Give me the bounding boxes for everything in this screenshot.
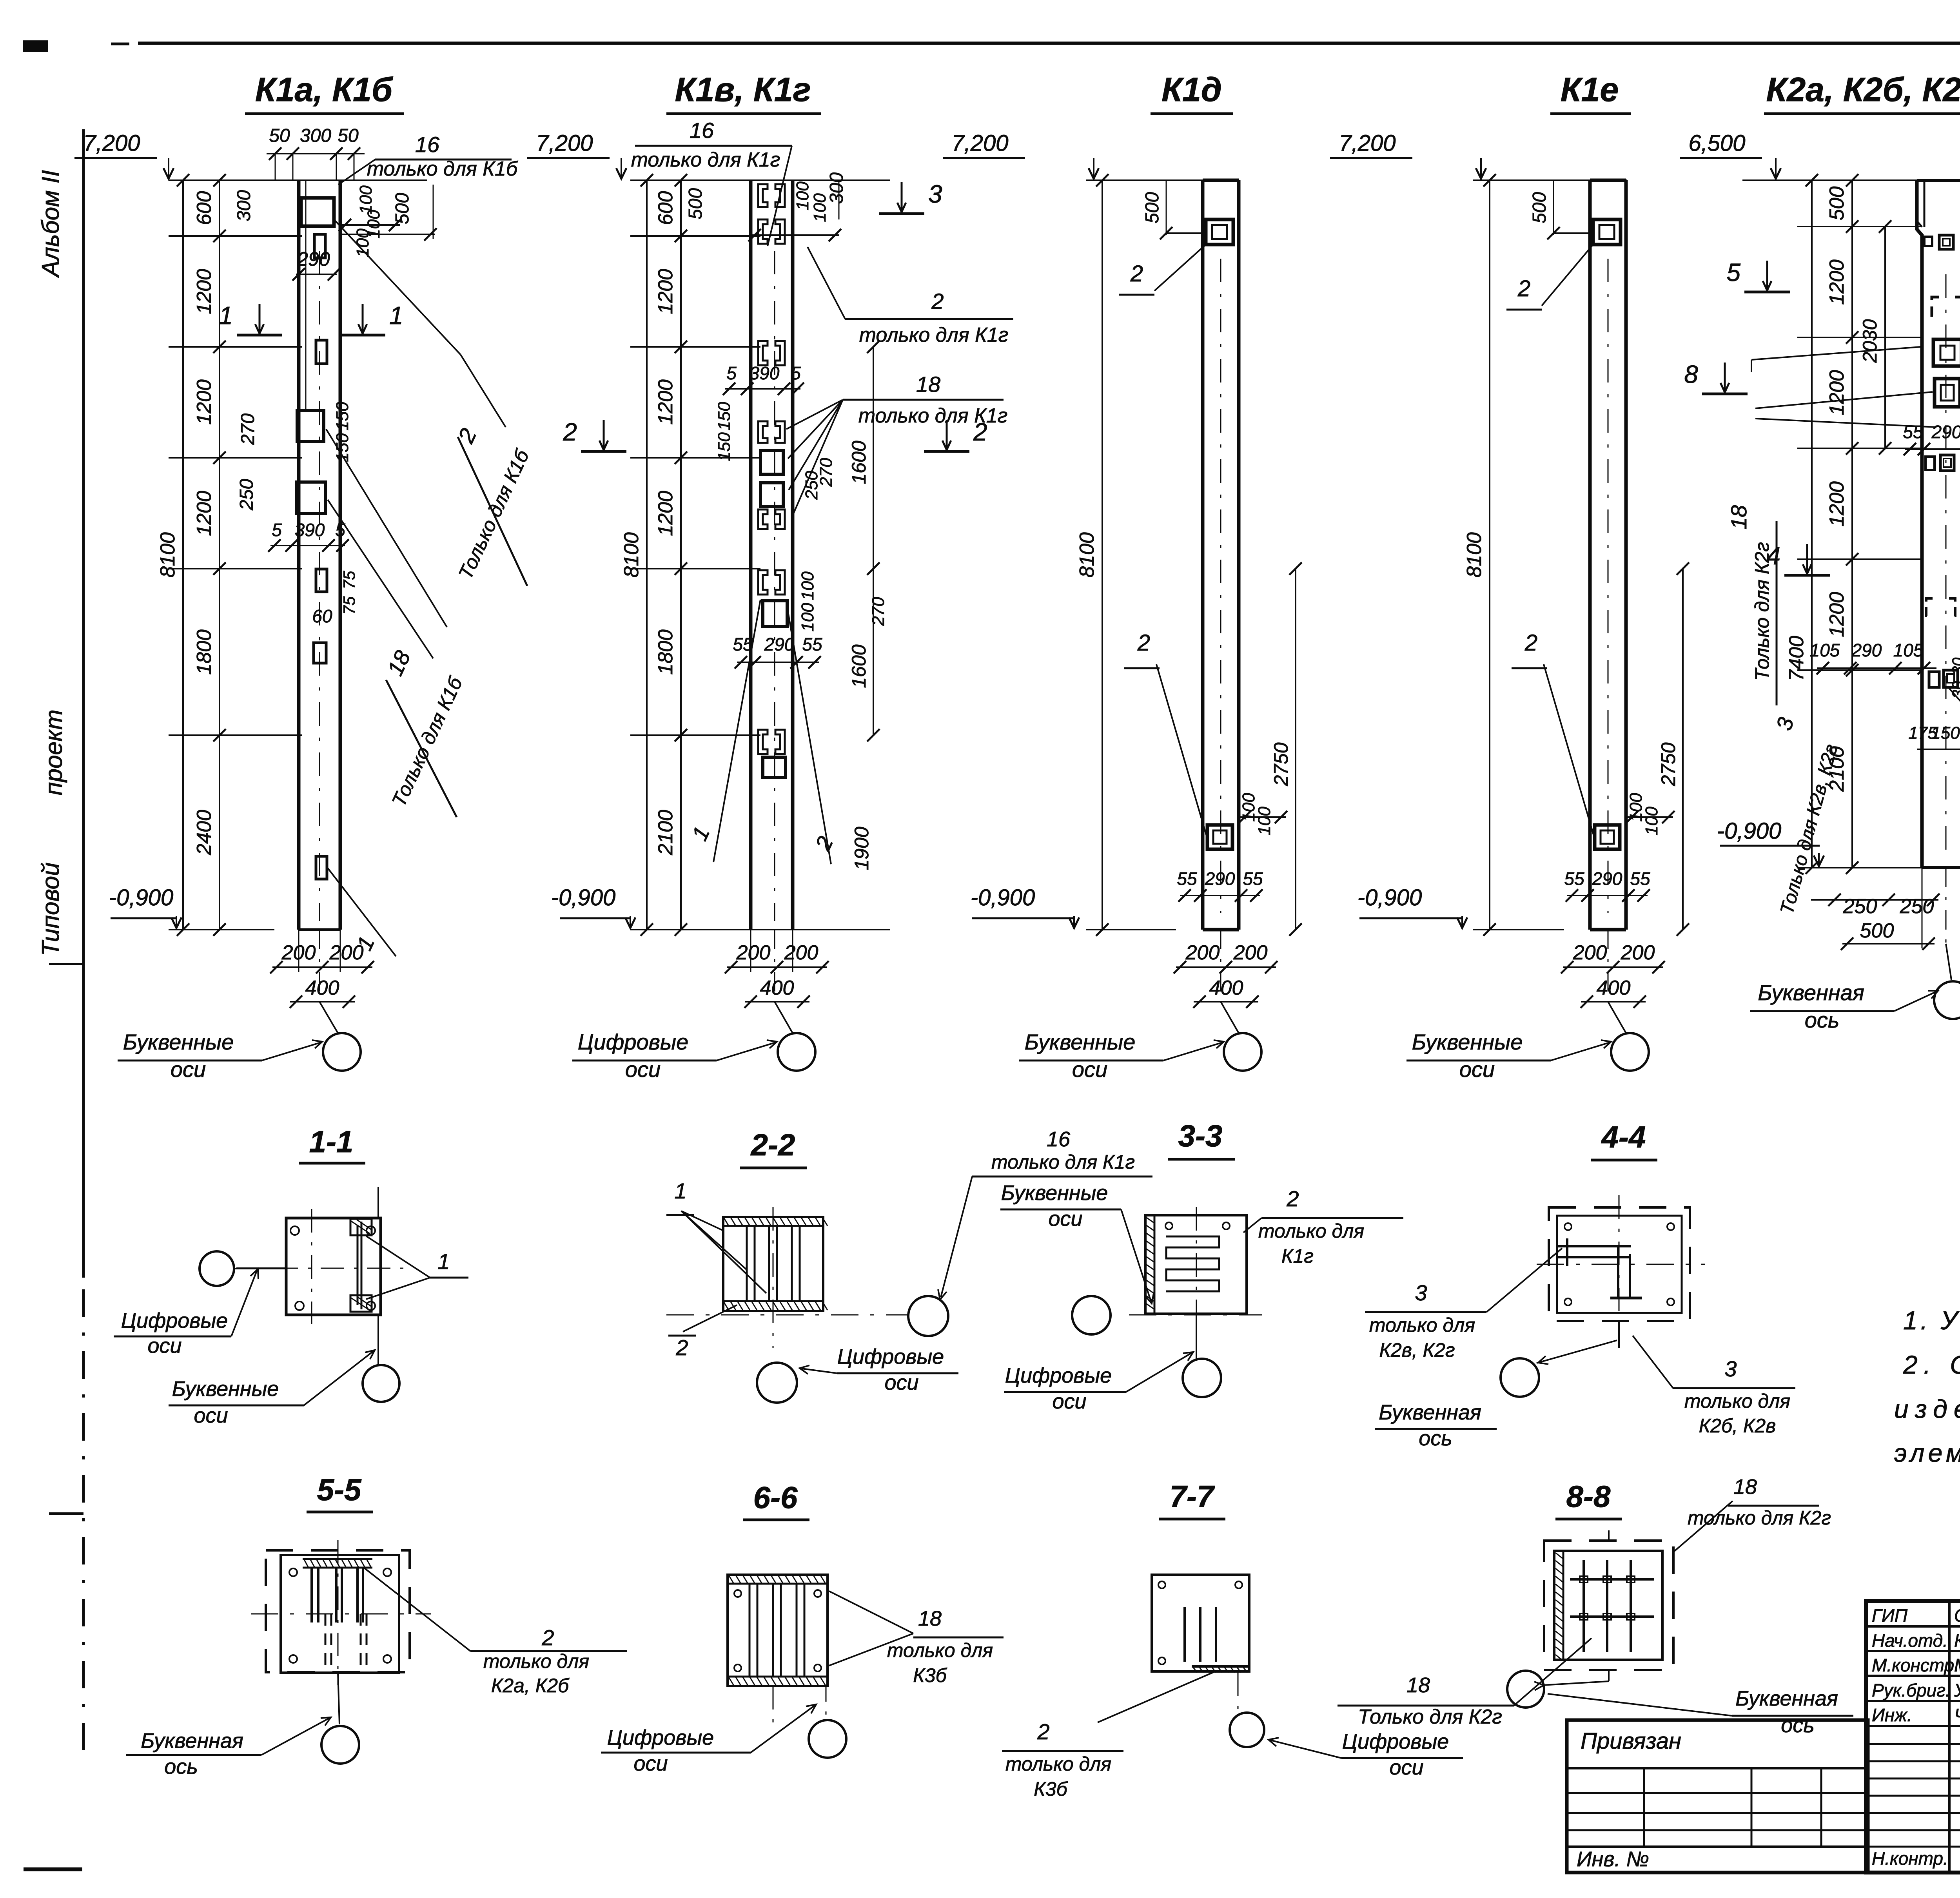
svg-text:150: 150 xyxy=(715,402,734,431)
column K1v K1g title xyxy=(666,71,821,114)
svg-text:ось: ось xyxy=(164,1755,198,1778)
embedded H parts K1v top xyxy=(758,184,785,244)
svg-text:Буквенные: Буквенные xyxy=(123,1030,234,1054)
embedded plate bottom K1d xyxy=(1207,825,1232,849)
elevation mark -0,900 K1v xyxy=(551,885,635,928)
label буквенная ось 4-4 xyxy=(1375,1401,1497,1450)
embedded squares K2 xyxy=(1933,339,1960,407)
svg-text:5: 5 xyxy=(272,520,282,540)
svg-text:200: 200 xyxy=(1621,941,1655,964)
axis circle below 2-2 xyxy=(757,1363,797,1403)
svg-text:Буквенная: Буквенная xyxy=(1758,980,1864,1005)
svg-text:105: 105 xyxy=(1893,640,1924,660)
svg-text:2030: 2030 xyxy=(1859,319,1881,363)
svg-text:2: 2 xyxy=(1286,1186,1299,1211)
svg-text:Чушкина: Чушкина xyxy=(1954,1705,1960,1725)
svg-text:1200: 1200 xyxy=(1826,259,1848,305)
svg-text:1900: 1900 xyxy=(851,827,873,870)
svg-text:6,500: 6,500 xyxy=(1688,131,1745,156)
svg-text:55: 55 xyxy=(1177,868,1197,889)
label 2 только для К3б 7-7 xyxy=(1002,1671,1215,1800)
svg-text:2: 2 xyxy=(1524,630,1537,656)
svg-text:60: 60 xyxy=(312,606,332,626)
svg-text:ГИП: ГИП xyxy=(1872,1605,1908,1626)
section 7-7 detail xyxy=(1152,1575,1249,1713)
svg-text:только для К2г: только для К2г xyxy=(1688,1507,1831,1529)
svg-text:Буквенная: Буквенная xyxy=(1735,1687,1838,1710)
dims near bottom plate K1d xyxy=(1177,793,1287,902)
section mark 3 on K1v xyxy=(879,180,942,214)
svg-text:Н.контр.: Н.контр. xyxy=(1872,1848,1948,1869)
svg-text:К1а, К1б: К1а, К1б xyxy=(255,71,394,109)
title block frame xyxy=(1866,1601,1960,1873)
svg-text:100: 100 xyxy=(1642,807,1661,836)
dimension chain K1a total 8100 xyxy=(156,174,189,936)
right top dims K1a xyxy=(234,185,437,257)
dim 2750 K1d xyxy=(1270,562,1302,936)
dimension chain K1v total 8100 xyxy=(620,174,653,936)
axis circle K1v xyxy=(778,1033,815,1071)
svg-text:200: 200 xyxy=(1233,941,1268,964)
svg-text:1200: 1200 xyxy=(193,269,216,314)
svg-text:400: 400 xyxy=(1209,977,1243,999)
svg-text:55: 55 xyxy=(1564,868,1584,889)
column K1v body xyxy=(751,180,793,930)
svg-text:3-3: 3-3 xyxy=(1178,1118,1223,1153)
axis circle below 5-5 xyxy=(321,1672,359,1764)
column K2 body with head xyxy=(1917,180,1960,868)
svg-text:2: 2 xyxy=(973,418,987,446)
dims near bottom plate K1e xyxy=(1564,793,1675,902)
label буквенная ось 5-5 xyxy=(126,1717,331,1778)
svg-text:К2а, К2б: К2а, К2б xyxy=(491,1675,570,1697)
elevation mark 6,500 K2 xyxy=(1680,131,1781,179)
elevation mark -0,900 K1e xyxy=(1357,885,1467,928)
svg-text:К1е: К1е xyxy=(1561,71,1619,109)
column K1e title xyxy=(1550,71,1631,114)
svg-text:100: 100 xyxy=(798,571,817,600)
svg-text:ось: ось xyxy=(1419,1427,1452,1450)
axis label K2 xyxy=(1750,980,1938,1032)
dim 500 K1e top xyxy=(1529,180,1590,239)
axis circle 1-1 bottom xyxy=(363,1315,399,1402)
section 1-1 detail xyxy=(274,1187,408,1324)
svg-text:Цифровые: Цифровые xyxy=(1342,1730,1449,1753)
K1g cluster plates xyxy=(758,421,785,529)
svg-text:16: 16 xyxy=(415,132,440,157)
label цифровые оси 1-1 xyxy=(114,1268,286,1358)
svg-text:Инж.: Инж. xyxy=(1872,1705,1912,1725)
svg-text:Цифровые: Цифровые xyxy=(578,1030,689,1054)
svg-text:150: 150 xyxy=(1931,723,1960,743)
svg-text:Буквенная: Буквенная xyxy=(141,1729,243,1753)
svg-text:500: 500 xyxy=(1529,192,1550,223)
elevation mark -0,900 K2 xyxy=(1717,818,1824,866)
svg-text:только для: только для xyxy=(1258,1220,1364,1242)
svg-text:-0,900: -0,900 xyxy=(551,885,615,910)
svg-text:2750: 2750 xyxy=(1270,742,1292,786)
label 2 только для К1г 3-3 xyxy=(1243,1186,1403,1267)
small plate K2 mid xyxy=(1926,455,1954,471)
section 1-1 title xyxy=(299,1124,365,1163)
svg-text:100: 100 xyxy=(1255,807,1274,836)
svg-text:Морозова: Морозова xyxy=(1954,1655,1960,1675)
leader 16 only for K1b xyxy=(338,132,518,185)
section mark 1-1 on K1a xyxy=(219,301,403,335)
elevation mark 7,200 K1d xyxy=(943,131,1099,179)
svg-text:1200: 1200 xyxy=(654,269,677,314)
svg-text:105: 105 xyxy=(1810,640,1840,660)
svg-text:-0,900: -0,900 xyxy=(109,885,173,910)
svg-text:только для: только для xyxy=(887,1639,993,1661)
svg-text:Рук.бриг.: Рук.бриг. xyxy=(1872,1680,1951,1700)
leader 2 section 2-2 xyxy=(668,1305,737,1360)
svg-text:только для: только для xyxy=(1684,1390,1790,1412)
axis label K1a xyxy=(118,1030,322,1082)
svg-text:400: 400 xyxy=(1597,977,1631,999)
svg-text:290: 290 xyxy=(764,634,795,654)
svg-text:16: 16 xyxy=(690,118,714,143)
section 3-3 detail xyxy=(1129,1207,1262,1348)
svg-text:1. Указания к листу см. ли: 1. Указания к листу см. лист 45. xyxy=(1903,1306,1960,1335)
elevation mark -0,900 K1d xyxy=(971,885,1079,928)
bottom dims K2 xyxy=(1811,868,1960,980)
dimension chain K1d total 8100 xyxy=(1076,174,1109,936)
bottom dims K1e xyxy=(1561,930,1665,1033)
svg-text:только для: только для xyxy=(1005,1753,1111,1775)
svg-text:только для К1г: только для К1г xyxy=(991,1151,1135,1173)
axis circle below 3-3 xyxy=(1183,1314,1221,1397)
svg-text:270: 270 xyxy=(238,413,258,445)
svg-text:7,200: 7,200 xyxy=(951,131,1008,156)
svg-text:только для К1г: только для К1г xyxy=(631,149,780,171)
svg-text:Серебрякова: Серебрякова xyxy=(1954,1605,1960,1626)
section 5-5 title xyxy=(307,1472,373,1512)
svg-text:290: 290 xyxy=(297,248,330,270)
svg-text:18: 18 xyxy=(1733,1475,1757,1499)
section 4-4 title xyxy=(1591,1120,1657,1160)
svg-text:100: 100 xyxy=(793,181,812,210)
svg-text:1: 1 xyxy=(437,1249,450,1274)
leader 1 section 2-2 xyxy=(666,1178,766,1293)
label 16 только для К1г 2-2 xyxy=(938,1128,1152,1300)
section 7-7 title xyxy=(1159,1479,1225,1519)
svg-text:300: 300 xyxy=(234,190,254,221)
svg-text:К1г: К1г xyxy=(1281,1245,1314,1267)
svg-text:600: 600 xyxy=(654,191,677,225)
section 6-6 title xyxy=(743,1480,809,1520)
svg-text:2: 2 xyxy=(1137,630,1150,656)
svg-text:290: 290 xyxy=(1931,422,1960,442)
leader 2 only for K1b xyxy=(334,219,534,586)
svg-text:Цифровые: Цифровые xyxy=(607,1726,714,1749)
svg-text:2: 2 xyxy=(1130,261,1143,286)
svg-text:К3б: К3б xyxy=(1034,1778,1068,1800)
svg-text:7-7: 7-7 xyxy=(1170,1479,1215,1514)
svg-text:1200: 1200 xyxy=(654,491,677,536)
dimension chain K1e total 8100 xyxy=(1463,174,1496,936)
sheet border left xyxy=(82,129,85,1756)
label 18 только для К3б 6-6 xyxy=(829,1591,1004,1686)
dimension chain K2 total 7400 xyxy=(1785,174,1818,874)
svg-text:К2в, К2г: К2в, К2г xyxy=(1379,1339,1455,1361)
embedded plates K2 top xyxy=(1924,235,1953,249)
svg-text:5: 5 xyxy=(726,363,737,383)
svg-text:2: 2 xyxy=(1037,1719,1049,1744)
svg-text:7400: 7400 xyxy=(1785,636,1808,681)
section 5-5 detail xyxy=(251,1540,431,1685)
bottom dims K1d xyxy=(1174,930,1278,1033)
title block signatures xyxy=(1872,1605,1960,1869)
svg-text:5: 5 xyxy=(791,363,801,383)
section 3-3 title xyxy=(1168,1118,1235,1159)
leader 1 section 1-1 xyxy=(366,1236,468,1299)
svg-text:Альбом II: Альбом II xyxy=(37,170,64,278)
svg-text:150: 150 xyxy=(333,433,352,462)
extension lines K1e xyxy=(1473,180,1627,930)
svg-text:2: 2 xyxy=(563,418,577,446)
sheet border top xyxy=(111,43,1960,44)
svg-text:16: 16 xyxy=(1047,1128,1071,1151)
column K2 title xyxy=(1764,71,1960,114)
svg-text:Цифровые: Цифровые xyxy=(121,1309,228,1332)
section 4-4 detail xyxy=(1537,1195,1705,1348)
svg-text:8100: 8100 xyxy=(156,532,179,578)
leader 1 2 bottom K1v xyxy=(687,600,873,870)
svg-text:200: 200 xyxy=(329,941,364,964)
svg-text:-0,900: -0,900 xyxy=(1357,885,1422,910)
top small dims 50 300 50 K1a xyxy=(267,125,365,181)
column K1a body xyxy=(299,180,340,930)
svg-text:оси: оси xyxy=(194,1404,228,1427)
bottom dims K1a xyxy=(270,930,374,1033)
axis circle K1a xyxy=(323,1033,361,1071)
label буквенная ось 8-8 xyxy=(1548,1687,1853,1737)
label 18 только для К2г 8-8 xyxy=(1338,1638,1592,1728)
leader 18 only for K1g xyxy=(786,372,1007,517)
svg-text:7,200: 7,200 xyxy=(536,131,593,156)
leader 2 bottom K1d xyxy=(1124,630,1207,839)
svg-text:150: 150 xyxy=(715,432,734,461)
label цифровые оси 2-2 xyxy=(800,1345,958,1394)
axis circle below 7-7 xyxy=(1230,1713,1264,1747)
svg-text:55: 55 xyxy=(1243,868,1263,889)
svg-text:1200: 1200 xyxy=(193,491,216,536)
svg-text:18: 18 xyxy=(918,1607,942,1630)
svg-text:1200: 1200 xyxy=(1826,370,1848,415)
svg-text:2: 2 xyxy=(931,289,944,314)
svg-text:Типовой: Типовой xyxy=(37,863,64,956)
section marks 5 8 4 on K2 xyxy=(1684,258,1960,575)
svg-text:оси: оси xyxy=(1048,1207,1082,1231)
svg-text:290: 290 xyxy=(1851,640,1882,660)
dims 55 290 55 row K1v xyxy=(733,571,822,669)
svg-text:1200: 1200 xyxy=(654,379,677,425)
svg-text:250: 250 xyxy=(236,479,257,511)
svg-text:8: 8 xyxy=(1684,360,1698,388)
svg-text:Ульянова: Ульянова xyxy=(1954,1680,1960,1700)
svg-text:500: 500 xyxy=(685,188,706,219)
privyazan box xyxy=(1567,1720,1868,1873)
axis circle K1d xyxy=(1224,1033,1261,1071)
svg-text:390: 390 xyxy=(750,363,780,383)
margin text project xyxy=(37,709,67,956)
svg-text:Буквенные: Буквенные xyxy=(1025,1030,1136,1054)
svg-text:50: 50 xyxy=(338,125,359,146)
svg-text:-0,900: -0,900 xyxy=(971,885,1035,910)
bottom dims K1v xyxy=(725,930,829,1033)
svg-text:М.констр.: М.констр. xyxy=(1872,1655,1959,1675)
svg-text:8100: 8100 xyxy=(620,532,643,578)
axis circle below 6-6 xyxy=(809,1686,846,1758)
svg-text:250: 250 xyxy=(1843,895,1877,918)
svg-text:К3б: К3б xyxy=(913,1664,947,1686)
svg-text:только для: только для xyxy=(483,1650,589,1672)
svg-text:270: 270 xyxy=(869,597,888,626)
leader 16 only for K1g top xyxy=(631,118,792,246)
svg-text:18: 18 xyxy=(1726,505,1751,529)
embedded plates K1a xyxy=(296,234,327,879)
svg-text:8100: 8100 xyxy=(1076,532,1098,578)
svg-text:2: 2 xyxy=(541,1625,554,1650)
leader 2 bottom K1e xyxy=(1512,630,1595,839)
svg-text:К1в, К1г: К1в, К1г xyxy=(675,71,811,109)
section 2-2 detail xyxy=(666,1207,909,1348)
svg-text:2: 2 xyxy=(1517,276,1530,301)
svg-text:2750: 2750 xyxy=(1657,742,1679,786)
svg-text:Только для К2г: Только для К2г xyxy=(1751,542,1773,681)
elevation mark 7,200 K1v xyxy=(527,131,626,179)
label цифровые оси 6-6 xyxy=(601,1704,816,1775)
svg-text:300: 300 xyxy=(300,125,331,146)
svg-text:1200: 1200 xyxy=(193,379,216,425)
svg-text:200: 200 xyxy=(1573,941,1607,964)
label цифровые оси 3-3 xyxy=(1004,1352,1193,1413)
svg-text:300: 300 xyxy=(826,172,847,204)
svg-text:Цифровые: Цифровые xyxy=(1005,1364,1112,1387)
svg-text:оси: оси xyxy=(1389,1756,1423,1779)
svg-text:Буквенные: Буквенные xyxy=(1001,1181,1108,1205)
svg-text:400: 400 xyxy=(760,977,794,999)
svg-text:18: 18 xyxy=(1406,1673,1430,1697)
svg-text:3: 3 xyxy=(1724,1356,1737,1381)
svg-text:200: 200 xyxy=(1185,941,1220,964)
svg-text:только для К1б: только для К1б xyxy=(367,158,518,180)
leader 2 only for K1g xyxy=(808,247,1013,346)
elevation mark -0,900 K1a xyxy=(109,885,181,928)
dimension chain K1a segments xyxy=(193,174,226,936)
svg-text:7,200: 7,200 xyxy=(83,131,140,156)
plate K2 bottom cluster xyxy=(1929,670,1958,687)
svg-text:600: 600 xyxy=(193,191,216,225)
fold marks left margin xyxy=(24,964,83,1869)
lower plates K1v xyxy=(758,730,786,778)
label цифровые оси 7-7 xyxy=(1269,1730,1463,1779)
svg-text:55: 55 xyxy=(802,634,822,654)
extension lines K1v xyxy=(630,180,890,930)
svg-text:оси: оси xyxy=(884,1371,918,1394)
svg-text:55: 55 xyxy=(1903,422,1923,442)
svg-text:оси: оси xyxy=(1052,1390,1086,1413)
section 8-8 detail xyxy=(1544,1475,1831,1681)
svg-text:18: 18 xyxy=(916,372,940,397)
svg-text:400: 400 xyxy=(305,977,339,999)
svg-text:К2б, К2в: К2б, К2в xyxy=(1699,1415,1776,1437)
svg-text:-0,900: -0,900 xyxy=(1717,818,1781,844)
svg-text:ось: ось xyxy=(1781,1713,1814,1737)
svg-text:1600: 1600 xyxy=(848,441,870,484)
extension lines K1d xyxy=(1086,180,1239,930)
section 8-8 title xyxy=(1555,1479,1622,1519)
svg-text:2: 2 xyxy=(675,1335,688,1360)
svg-text:только для К1г: только для К1г xyxy=(859,324,1009,346)
elevation mark 7,200 K1a xyxy=(74,131,174,179)
axis circle 1-1 left xyxy=(200,1251,285,1286)
leader 18 only for K1b xyxy=(326,429,467,817)
svg-text:30: 30 xyxy=(1949,658,1960,675)
embedded H parts K1v mid xyxy=(758,341,785,365)
svg-text:Буквенная: Буквенная xyxy=(1379,1401,1481,1424)
mid dims K1a xyxy=(236,402,358,626)
column K1d body xyxy=(1203,180,1239,930)
embedded plate bottom K1e xyxy=(1595,825,1620,849)
label буквенные оси 1-1 xyxy=(169,1350,375,1427)
svg-text:8-8: 8-8 xyxy=(1566,1479,1611,1514)
dimension chain K2 segments xyxy=(1826,174,1858,874)
dim 500 K1d top xyxy=(1142,180,1203,239)
axis circles 2-2 xyxy=(908,1296,1111,1336)
dims 105 290 105 K2 xyxy=(1810,640,1960,749)
leader 2 top K1d xyxy=(1119,245,1206,295)
svg-text:Буквенные: Буквенные xyxy=(172,1377,279,1401)
section 2-2 title xyxy=(740,1128,807,1168)
axis label K1e xyxy=(1406,1030,1611,1082)
dims 5 390 5 K1v xyxy=(715,363,836,500)
label 3 только для К2б К2в 4-4 xyxy=(1633,1336,1795,1437)
svg-text:2400: 2400 xyxy=(193,810,216,856)
svg-text:1: 1 xyxy=(674,1178,686,1203)
svg-text:2-2: 2-2 xyxy=(750,1128,795,1162)
svg-text:Буквенные: Буквенные xyxy=(1412,1030,1523,1054)
svg-text:1200: 1200 xyxy=(1826,592,1848,637)
svg-text:75: 75 xyxy=(340,571,358,589)
top small dim 500 K1v xyxy=(685,172,847,241)
mid plates K1v xyxy=(758,570,787,627)
svg-text:500: 500 xyxy=(1142,192,1163,223)
plates K2 lower xyxy=(1926,598,1955,616)
dim 290 K1a xyxy=(292,248,340,281)
column K1a K1b title xyxy=(245,71,404,114)
svg-text:1800: 1800 xyxy=(654,629,677,675)
svg-text:390: 390 xyxy=(295,520,325,540)
long leader lines K2 xyxy=(1751,251,1960,839)
svg-text:5: 5 xyxy=(1726,258,1740,286)
axis circle below 4-4 xyxy=(1501,1321,1619,1397)
label 3 только для К2в К2г 4-4 xyxy=(1365,1248,1562,1361)
svg-text:Только для К2г: Только для К2г xyxy=(1358,1706,1502,1728)
svg-text:1200: 1200 xyxy=(1826,481,1848,527)
column K1d title xyxy=(1151,71,1233,114)
svg-text:1: 1 xyxy=(389,301,403,330)
svg-text:200: 200 xyxy=(736,941,771,964)
axis label K1d xyxy=(1019,1030,1224,1082)
section mark 2 on K1v xyxy=(563,418,987,451)
embedded plate 2 top K1e xyxy=(1593,219,1621,245)
svg-text:Инв. №: Инв. № xyxy=(1577,1847,1649,1871)
dim 2750 K1e xyxy=(1657,562,1689,936)
svg-text:оси: оси xyxy=(147,1334,181,1358)
svg-text:1: 1 xyxy=(219,301,233,330)
